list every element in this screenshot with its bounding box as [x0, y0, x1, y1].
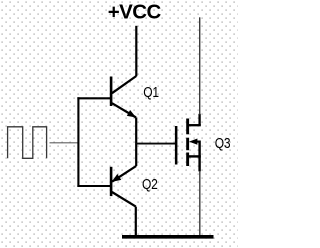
svg-text:Q1: Q1 — [143, 84, 159, 100]
svg-text:Q2: Q2 — [142, 176, 158, 192]
svg-text:+VCC: +VCC — [108, 1, 162, 24]
svg-text:Q3: Q3 — [215, 135, 231, 151]
